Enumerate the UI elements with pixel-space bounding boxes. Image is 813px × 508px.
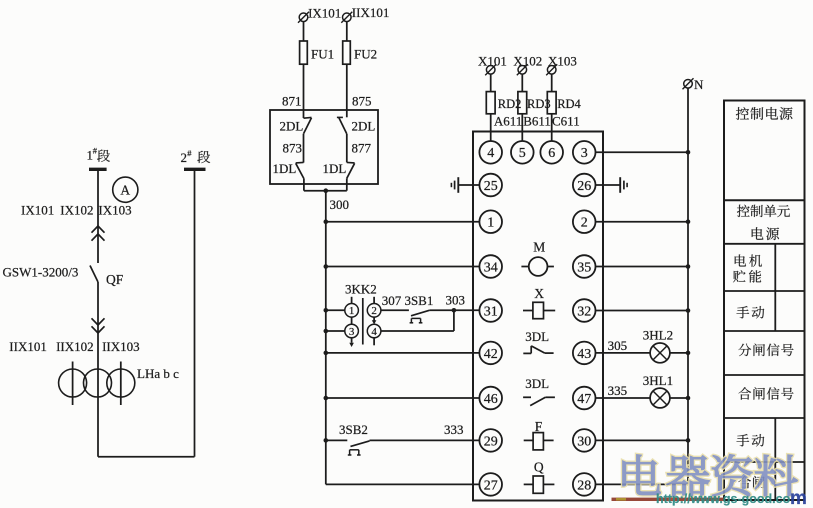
svg-text:28: 28 [577,478,591,493]
svg-text:3SB2: 3SB2 [339,422,368,437]
svg-text:LHa b c: LHa b c [137,366,179,381]
svg-text:m: m [790,488,807,508]
svg-text:A611: A611 [494,114,522,129]
svg-text:303: 303 [446,293,466,308]
svg-text:34: 34 [484,260,498,275]
svg-text:5: 5 [519,146,526,161]
svg-text:X101: X101 [478,53,507,68]
svg-text:2: 2 [371,305,377,317]
svg-text:IX101: IX101 [308,6,341,21]
svg-text:1DL: 1DL [323,161,347,176]
svg-text:4: 4 [487,146,494,161]
svg-text:RD4: RD4 [557,97,581,111]
svg-text:RD3: RD3 [527,97,551,111]
svg-text:875: 875 [352,94,372,109]
svg-text:30: 30 [577,434,591,449]
svg-text:F: F [535,419,543,434]
svg-text:GSW1-3200/3: GSW1-3200/3 [3,265,79,280]
svg-text:32: 32 [577,304,591,319]
svg-text:2: 2 [581,216,588,231]
svg-text:42: 42 [484,347,498,362]
svg-text:307 3SB1: 307 3SB1 [382,293,434,308]
svg-text:29: 29 [484,434,498,449]
svg-text:IIX101: IIX101 [9,339,47,354]
svg-text:26: 26 [577,179,591,194]
svg-text:X: X [534,286,544,301]
svg-text:#: # [93,146,98,156]
svg-text:3KK2: 3KK2 [345,282,377,297]
svg-text:25: 25 [484,179,498,194]
svg-text:3DL: 3DL [525,376,549,391]
svg-text:FU2: FU2 [354,47,377,62]
svg-text:IIX103: IIX103 [102,339,140,354]
svg-text:#: # [187,148,192,158]
svg-text:335: 335 [608,383,628,398]
svg-text:N: N [694,77,704,92]
svg-text:35: 35 [577,260,591,275]
svg-text:B611: B611 [523,114,551,129]
svg-text:IX102: IX102 [60,203,93,218]
svg-text:31: 31 [484,304,498,319]
svg-text:http://www.gs-good.co: http://www.gs-good.co [656,492,791,506]
svg-text:873: 873 [283,141,303,156]
svg-text:IX101: IX101 [21,203,54,218]
svg-text:27: 27 [484,478,498,493]
svg-text:877: 877 [352,141,372,156]
svg-text:3: 3 [349,326,355,338]
svg-text:RD2: RD2 [498,97,522,111]
svg-text:3HL2: 3HL2 [643,328,673,343]
svg-text:2DL: 2DL [352,119,376,134]
svg-text:871: 871 [282,94,302,109]
svg-text:3DL: 3DL [525,329,549,344]
svg-text:1DL: 1DL [273,161,297,176]
svg-text:6: 6 [548,146,555,161]
svg-text:Q: Q [534,460,544,475]
svg-text:M: M [533,240,545,255]
svg-text:X103: X103 [548,53,577,68]
svg-text:2: 2 [181,150,188,165]
svg-text:4: 4 [371,326,377,338]
svg-text:43: 43 [577,347,591,362]
svg-text:47: 47 [577,392,591,407]
svg-text:QF: QF [106,272,124,287]
svg-text:X102: X102 [513,53,542,68]
svg-text:FU1: FU1 [311,47,334,62]
svg-text:46: 46 [484,392,498,407]
svg-text:IIX102: IIX102 [56,339,94,354]
svg-text:IIX101: IIX101 [352,5,390,20]
svg-text:305: 305 [608,338,628,353]
svg-text:3: 3 [581,146,588,161]
svg-text:3HL1: 3HL1 [643,373,673,388]
svg-text:2DL: 2DL [280,119,304,134]
svg-text:C611: C611 [552,114,580,129]
svg-text:IX103: IX103 [98,203,131,218]
svg-text:300: 300 [330,197,350,212]
svg-text:333: 333 [444,422,464,437]
svg-text:A: A [120,182,130,197]
svg-text:1: 1 [487,216,494,231]
svg-text:1: 1 [349,305,355,317]
